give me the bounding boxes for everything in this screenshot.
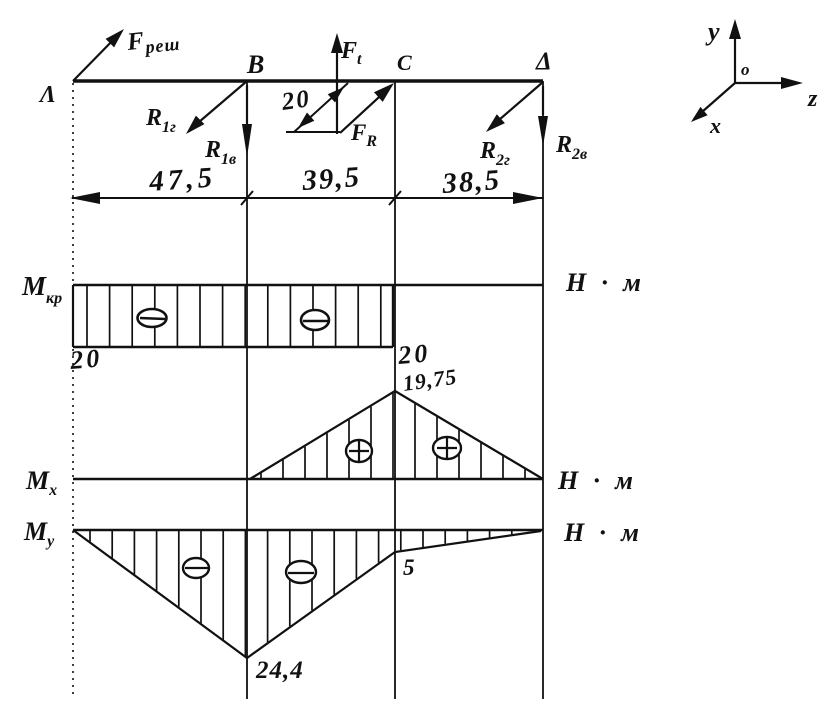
dimension label 39,5 — [300, 161, 362, 197]
svg-text:Н · м: Н · м — [557, 466, 638, 495]
label z — [807, 86, 818, 112]
point label B — [246, 50, 264, 79]
label x — [709, 113, 721, 138]
svg-text:Н · м: Н · м — [563, 518, 644, 547]
My baseline A-D — [73, 529, 543, 532]
minus sign circle 2 on Mkr — [301, 310, 329, 330]
svg-text:5: 5 — [403, 555, 415, 580]
dimension label 20 — [279, 85, 312, 116]
svg-text:Н · м: Н · м — [565, 268, 646, 297]
label My — [23, 517, 55, 550]
Mx triangle outline — [250, 391, 543, 479]
plus sign circle 2 on Mx — [433, 437, 461, 459]
svg-text:C: C — [397, 50, 412, 75]
label Mkr — [21, 271, 62, 307]
svg-text:20: 20 — [68, 343, 103, 375]
construction line C — [394, 81, 396, 699]
Mkr baseline A-D — [73, 284, 543, 287]
gear bottom edge — [286, 131, 340, 133]
svg-text:y: y — [705, 17, 720, 46]
minus sign circle 2 on My — [286, 561, 316, 583]
dimension label 47,5 — [147, 161, 217, 198]
Mkr value 20 right — [396, 338, 431, 370]
My value 24,4 — [255, 657, 304, 684]
label F_rem — [125, 24, 182, 59]
label Ft — [340, 38, 362, 68]
svg-text:47,5: 47,5 — [147, 161, 217, 198]
gear offset dimension diagonal with two arrowheads — [294, 83, 348, 132]
dimension line with end arrows — [70, 192, 543, 204]
svg-text:39,5: 39,5 — [300, 161, 362, 197]
svg-text:38,5: 38,5 — [440, 164, 502, 200]
svg-text:20: 20 — [396, 338, 431, 370]
point label A — [38, 82, 56, 108]
point label C — [397, 50, 412, 75]
minus sign circle 1 on My — [183, 558, 209, 578]
Mkr value 20 left — [68, 343, 103, 375]
reaction R1g arrow (down-left at B) — [186, 81, 247, 134]
reaction R2g arrow (down-left at D) — [486, 82, 543, 132]
force FR arrow (up-right) — [340, 83, 394, 133]
svg-text:24,4: 24,4 — [255, 657, 304, 684]
units N*m for Mkr — [565, 268, 646, 297]
label Mx — [25, 466, 57, 499]
y axis arrow — [729, 19, 741, 83]
svg-text:Δ: Δ — [535, 48, 552, 75]
label R2v — [555, 132, 587, 163]
units N*m for My — [563, 518, 644, 547]
dimension tick at C — [389, 191, 401, 205]
label R1g — [145, 105, 176, 136]
label y — [705, 17, 720, 46]
x axis arrow — [691, 83, 735, 122]
My outline polyline — [73, 530, 541, 658]
Mx value 19,75 — [401, 364, 458, 396]
svg-text:x: x — [709, 113, 721, 138]
plus sign circle 1 on Mx — [346, 440, 372, 462]
Mkr rectangle outline — [73, 285, 393, 347]
reaction R1v arrow (down at B) — [242, 85, 252, 157]
Mx baseline A-D — [73, 478, 543, 481]
minus sign circle 1 on Mkr — [138, 309, 167, 327]
construction line A (dash-dot) — [72, 83, 74, 699]
force F_rem arrow at A — [73, 29, 124, 81]
label R2g — [479, 138, 510, 169]
dimension tick at B — [241, 191, 253, 205]
construction line B — [246, 81, 248, 699]
Mx hatching — [261, 393, 525, 478]
label R1v — [204, 137, 236, 168]
z axis arrow — [735, 77, 803, 89]
point label D — [535, 48, 552, 75]
My hatching — [90, 531, 534, 656]
dimension label 38,5 — [440, 164, 502, 200]
label FR — [350, 120, 377, 150]
svg-text:o: o — [741, 60, 750, 79]
force Ft arrow (up) — [331, 33, 343, 134]
Mkr hatching — [87, 286, 381, 346]
svg-text:Λ: Λ — [38, 82, 56, 108]
construction line D — [542, 81, 544, 699]
units N*m for Mx — [557, 466, 638, 495]
svg-text:20: 20 — [279, 85, 312, 116]
shaft line A-D — [73, 79, 543, 82]
svg-text:B: B — [246, 50, 264, 79]
svg-text:z: z — [807, 86, 818, 112]
My value 5 — [403, 555, 415, 580]
reaction R2v arrow (down at D) — [538, 86, 548, 146]
axis origin O — [741, 60, 750, 79]
